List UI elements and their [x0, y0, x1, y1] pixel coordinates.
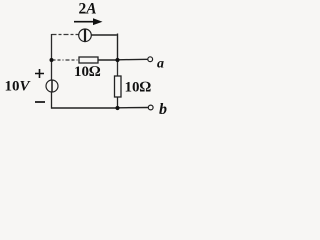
svg-text:a: a	[157, 57, 164, 72]
wire right vertical upper	[117, 34, 119, 61]
svg-text:b: b	[159, 101, 167, 118]
voltage source V1 circle	[46, 80, 58, 92]
current source U1 internal bar	[84, 29, 86, 41]
svg-text:2A: 2A	[79, 1, 97, 18]
wire top-right (current source to right corner)	[92, 34, 117, 36]
wire to terminal a	[118, 58, 148, 61]
wire top-left (left corner to current source)	[52, 34, 80, 36]
terminal b circle	[148, 105, 153, 110]
junction dot left	[50, 58, 54, 62]
voltage source V1 internal line	[51, 80, 53, 92]
wire bottom-right to terminal b	[118, 107, 149, 109]
resistor R1 (horizontal 10 ohm)	[79, 57, 98, 63]
svg-text:10Ω: 10Ω	[125, 80, 152, 96]
wire left vertical	[51, 34, 53, 80]
junction dot right top	[115, 58, 119, 62]
current arrow 2A	[74, 21, 95, 23]
wire left vertical lower (below voltage source)	[51, 92, 53, 109]
svg-text:10V: 10V	[5, 79, 32, 95]
minus sign	[35, 101, 45, 103]
junction dot right bottom	[115, 106, 119, 110]
current source U1 circle	[79, 29, 92, 42]
resistor R2 (vertical 10 ohm)	[115, 76, 122, 97]
plus sign	[35, 69, 44, 78]
terminal a circle	[148, 57, 153, 62]
svg-text:10Ω: 10Ω	[74, 64, 101, 80]
wire bottom	[52, 107, 118, 109]
wire right vertical lower (resistor to bottom)	[117, 97, 119, 108]
wire middle-left (left junction to resistor R1)	[52, 59, 80, 61]
wire right vertical mid (junction a to resistor)	[117, 60, 119, 76]
wire middle-right (resistor R1 to right junction)	[98, 59, 118, 61]
